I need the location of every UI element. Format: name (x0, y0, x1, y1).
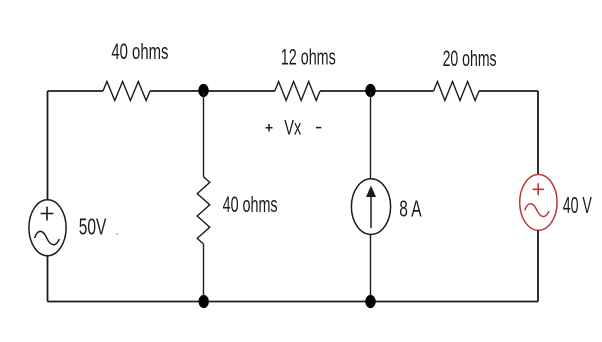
current source I1 circle (351, 179, 390, 235)
wire top-left horizontal segment (48, 90, 104, 92)
wire left branch lower (source V1 to bottom-left corner) (47, 256, 49, 302)
resistor R4 40 ohms vertical zigzag (197, 177, 210, 244)
wire right branch upper (top-right corner down to V2) (537, 91, 539, 175)
wire current-source branch lower (I1 to bottom node) (370, 234, 372, 301)
wire current-source branch upper (node B down to I1) (370, 91, 372, 179)
svg-text:12 ohms: 12 ohms (281, 45, 336, 70)
I1 arrow shaft (370, 194, 372, 228)
node A top-middle junction (198, 84, 208, 97)
svg-text:Vx: Vx (284, 116, 301, 139)
I1 arrow head (366, 186, 376, 198)
svg-text:20 ohms: 20 ohms (443, 46, 497, 71)
V2 sine wave (red) (525, 204, 549, 217)
svg-text:40 ohms: 40 ohms (111, 39, 168, 64)
node C bottom-middle junction (199, 295, 209, 308)
label - (minus sign) (316, 127, 321, 129)
faint dot after 50V (116, 233, 118, 235)
svg-text:40 V: 40 V (563, 192, 593, 218)
label + Vx - (plus sign) (266, 124, 273, 132)
wire from R1 to node A and on to R2 (150, 90, 275, 92)
resistor R1 40 ohms horizontal zigzag (103, 82, 150, 101)
wire right branch lower (V2 to bottom-right corner) (537, 230, 539, 301)
wire from R3 to top-right corner (479, 90, 538, 92)
wire middle branch upper (node A down to R4) (203, 91, 205, 177)
voltage source V1 50V circle (29, 200, 66, 256)
resistor R3 20 ohms horizontal zigzag (434, 82, 479, 101)
wire bottom rail (48, 301, 539, 303)
V2 plus sign (red) (533, 183, 544, 195)
V1 plus sign (41, 207, 54, 221)
svg-text:8 A: 8 A (399, 196, 422, 222)
wire from R2 to node B and on to R3 (320, 90, 434, 92)
voltage source V2 40V red circle (520, 175, 557, 231)
wire middle branch lower (R4 to bottom node) (203, 244, 205, 302)
node B top-right junction (365, 84, 375, 97)
V1 sine wave (35, 231, 60, 244)
svg-text:50V: 50V (79, 214, 107, 240)
node D bottom-right junction (365, 295, 375, 308)
wire left branch upper (top-left corner down to source V1) (47, 91, 49, 200)
resistor R2 12 ohms horizontal zigzag (275, 82, 320, 101)
svg-text:40 ohms: 40 ohms (223, 192, 278, 217)
